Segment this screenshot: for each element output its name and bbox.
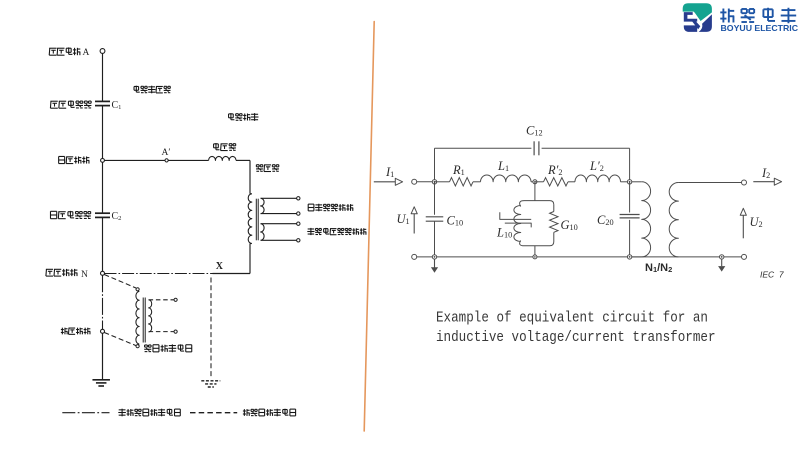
label 中压电容器 [50, 211, 90, 219]
wire top right vertical [629, 148, 631, 179]
junction node bottom-mid [533, 255, 537, 259]
legend label 接载波耦合装置 [243, 409, 296, 417]
conductance G10 [550, 205, 558, 242]
value L10 [496, 226, 512, 240]
node mid-voltage terminal [101, 159, 105, 163]
wire node to R1 [435, 181, 450, 183]
inductor L10 [514, 206, 521, 242]
wire node down to C10 [434, 182, 436, 215]
secondary winding 1 terminals [297, 197, 300, 216]
node N (low-voltage terminal) [101, 271, 105, 275]
wire right vertical through C20 [629, 182, 631, 257]
carrier coupling core [143, 298, 145, 343]
inductor L'2 [575, 175, 621, 182]
bottom left terminal [412, 254, 417, 259]
value G10 [561, 218, 578, 232]
wire R2 to L2 [568, 181, 575, 183]
wire C1 to mid node [102, 106, 104, 161]
wire transformer bottom to X [213, 244, 251, 274]
label 电容分压器 [134, 86, 171, 94]
logo text 博宇电气 [720, 8, 796, 24]
label 低压端子 N [46, 269, 88, 280]
transformer secondary winding 1 [261, 198, 297, 213]
page divider line [364, 22, 374, 432]
resistor R'2 [544, 178, 569, 186]
label A' [162, 148, 171, 158]
wire A to C1 [102, 54, 104, 102]
secondary top terminal [742, 180, 747, 185]
ideal transformer secondary [669, 183, 678, 257]
carrier coupling secondary coil [149, 300, 152, 332]
wire C2 to N [102, 217, 104, 271]
label 二次绕组端子 [308, 204, 353, 212]
dashed leads of coupling secondary [149, 300, 174, 332]
dashed wire X down to ground [210, 278, 212, 378]
junction node top-left [432, 180, 436, 184]
carrier coupling primary coil [136, 291, 139, 345]
magnetizing branch bottom wire [520, 241, 554, 246]
wire L2 to right node [621, 181, 630, 183]
ideal transformer primary [632, 182, 651, 257]
label 高压端子 A [49, 47, 89, 58]
capacitor C2 [95, 213, 110, 217]
value C20 [597, 213, 614, 227]
secondary top lead [678, 182, 741, 184]
value U2 [750, 215, 763, 229]
capacitor C10 [426, 217, 444, 221]
inductor L1 [481, 175, 532, 182]
logo text BOYUU ELECTRIC [721, 24, 799, 33]
junction node mid [533, 180, 537, 184]
label X [216, 261, 224, 272]
value C1 [112, 100, 122, 111]
label 载波耦合装置 [144, 344, 192, 352]
terminal A (high-voltage terminal) [100, 49, 105, 54]
legend dashed sample (with carrier coupling) [190, 412, 237, 414]
value I2 [761, 166, 770, 180]
label 剩余电压绕组端子 [307, 228, 366, 235]
node earth terminal [101, 329, 105, 333]
wire top left vertical [434, 148, 436, 180]
dash-dot wire N down to earth terminal [102, 275, 104, 329]
dashed link earth terminal to coupling coil [104, 333, 136, 346]
capacitor C12 [534, 141, 539, 155]
label 高压电容器 [50, 100, 91, 108]
coupling secondary terminals [174, 298, 177, 333]
junction node top-right [627, 180, 631, 184]
wire branch to bottom rail [534, 246, 536, 257]
svg-text:A′: A′ [162, 148, 171, 158]
value R'2 [547, 163, 563, 177]
label IEC 7 [760, 270, 784, 280]
wire node to A' [104, 159, 165, 161]
coupling coil terminals left [136, 288, 139, 348]
wire mid node to C2 [102, 162, 104, 213]
label N1/N2 [645, 262, 672, 274]
wire A' to reactor [168, 159, 208, 161]
value C10 [447, 214, 464, 228]
value U1 [397, 212, 410, 226]
label 接地端子 [61, 328, 90, 335]
value R1 [452, 163, 465, 177]
svg-text:Example of equivalent circuit: Example of equivalent circuit for an [436, 311, 708, 327]
secondary bottom junction [720, 255, 724, 259]
wire mid node to magnetizing branch [534, 182, 536, 201]
secondary bottom terminal [742, 254, 747, 259]
node A' [165, 159, 168, 162]
svg-text:A: A [83, 48, 90, 58]
iron core marks [500, 212, 531, 227]
transformer primary winding [248, 194, 252, 244]
value C12 [526, 124, 543, 138]
value L1 [497, 159, 509, 173]
wire reactor to corner and down to transformer [236, 160, 250, 193]
logo mark BY [683, 3, 712, 32]
ground (left main) [92, 380, 110, 386]
wire L1 to mid node [531, 181, 535, 183]
wire R1 to L1 [473, 181, 481, 183]
wire terminal to node [417, 181, 435, 183]
svg-text:inductive voltage/current tran: inductive voltage/current transformer [436, 330, 716, 346]
voltage arrow U1 [411, 207, 417, 234]
current arrow I1 [374, 178, 403, 185]
wire top rail left of C12 [435, 147, 532, 149]
caption line 1 [436, 311, 708, 327]
wire node to R2 [535, 181, 544, 183]
capacitor C1 [95, 101, 110, 105]
svg-text:N: N [81, 270, 88, 280]
secondary winding 2 terminals [297, 222, 300, 242]
label 电磁单元 [229, 113, 259, 121]
svg-text:BOYUU ELECTRIC: BOYUU ELECTRIC [721, 24, 799, 33]
legend label 不接载波耦合装置 [118, 409, 180, 417]
capacitor C20 [620, 215, 640, 218]
svg-text:X: X [216, 261, 224, 272]
label 电抗器 [214, 143, 236, 151]
resistor R1 [450, 178, 474, 186]
input terminal [412, 179, 417, 184]
junction node bottom-left [432, 255, 436, 259]
junction node bottom-right [627, 255, 631, 259]
label 变压器 [256, 165, 279, 172]
wire top rail right of C12 [542, 147, 630, 149]
magnetizing branch top wire [520, 201, 554, 207]
dash-dot wire N to X [105, 273, 213, 275]
wire earth terminal to ground [102, 333, 104, 380]
caption line 2 [436, 330, 716, 346]
current arrow I2 [753, 178, 781, 185]
secondary bottom lead [722, 256, 742, 258]
reactor coil [209, 156, 236, 160]
bottom rail [417, 256, 722, 258]
wire C10 to bottom rail [434, 221, 436, 257]
transformer core [256, 199, 258, 241]
dashed link N to coupling coil [104, 275, 136, 289]
voltage arrow U2 [740, 208, 746, 238]
value C2 [112, 211, 122, 222]
transformer secondary winding 2 (residual voltage) [261, 224, 297, 241]
value L'2 [589, 159, 604, 173]
value I1 [385, 165, 394, 179]
legend dash-dot sample (no carrier coupling) [62, 412, 109, 414]
ground arrow secondary [718, 259, 725, 272]
svg-text:IEC 7: IEC 7 [760, 270, 784, 280]
label 中压端子 [59, 156, 90, 163]
dashed ground under X [201, 381, 220, 387]
ground arrow bottom-left [431, 259, 438, 273]
